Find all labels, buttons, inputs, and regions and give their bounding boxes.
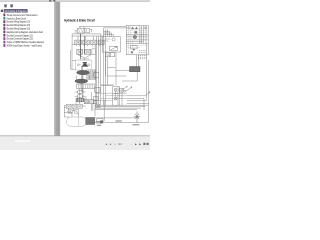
wire cluster left leads: [64, 106, 85, 113]
small comp on mid column: [94, 72, 99, 77]
valve block hatched: [77, 84, 95, 88]
brake right links: [120, 86, 128, 91]
wire bank drop L: [116, 71, 137, 82]
pump circles: [77, 64, 79, 66]
wire pump top line: [80, 58, 90, 60]
tank strainer dark: [86, 118, 95, 125]
solenoid valve SV1: [75, 40, 81, 45]
right bus staircase wires: [104, 28, 127, 106]
sidebar tab icon 1: [4, 4, 6, 7]
check valve CV2: [85, 49, 91, 54]
zoom in button: [147, 143, 149, 145]
bottom border wire: [88, 118, 149, 123]
priority valve V1: [77, 29, 84, 34]
right small mark row 2: [138, 56, 148, 59]
post-fc valve cluster: [105, 53, 110, 57]
wire pump links: [77, 76, 90, 80]
steering small circle: [131, 51, 133, 53]
right nested return wires: [127, 96, 149, 110]
mid band wires: [96, 93, 127, 101]
wire left riser: [71, 44, 76, 69]
steering tank symbol: [131, 46, 138, 49]
pre-tank valve row: [68, 110, 72, 113]
brake gauge 2: [114, 97, 117, 100]
drain X valve: [134, 112, 140, 123]
solenoid valve SV2: [83, 40, 89, 45]
wire mid drops: [76, 92, 93, 117]
long verticals mid column: [95, 34, 103, 106]
tank T1: [66, 117, 86, 126]
wire fc risers: [106, 57, 127, 85]
bookmark item 6: [3, 31, 5, 34]
status bar: [0, 136, 150, 150]
tank baffle: [78, 117, 80, 126]
wire center drop: [81, 66, 83, 92]
small box cluster right of mid: [96, 104, 100, 107]
page number box: [113, 142, 117, 145]
svg-text:04 Drawing & Diagrams: 04 Drawing & Diagrams: [5, 10, 28, 13]
top toolbar edge strip: [0, 0, 150, 2]
bookmark root row highlight: [4, 9, 28, 12]
pump rotor dark: [81, 64, 88, 67]
tank side box: [97, 119, 104, 122]
bookmark item 3: [3, 20, 5, 23]
relief valve chain 3: [78, 99, 82, 102]
wire manifold drops: [78, 36, 101, 40]
compact valve cluster dark: [77, 98, 85, 102]
svg-text:MODM (Input/Output Monitor - I: MODM (Input/Output Monitor - Input/Outpu…: [7, 45, 42, 48]
toolbar icon remnants: [49, 0, 51, 2]
bookmark item 1: [3, 14, 5, 17]
pump unit frame: [75, 60, 91, 70]
wire manifold lines: [72, 34, 103, 44]
label below tank: [96, 123, 102, 125]
corner arrow top-right: [147, 92, 150, 95]
bottom bus wires: [95, 105, 149, 109]
bookmark item 10: [3, 44, 5, 47]
valve bank dark: [130, 67, 141, 72]
valve V1 side stubs: [75, 29, 92, 32]
wire top feed: [79, 26, 126, 28]
status pill left: [14, 139, 32, 142]
wire tank feeds: [72, 100, 104, 121]
motor ellipse M1: [77, 71, 90, 75]
motor ellipse M2: [75, 79, 88, 83]
sidebar tab icon 2: [10, 4, 12, 7]
zoom out button: [143, 143, 145, 145]
steering inner verticals: [140, 26, 146, 44]
steering dark box: [134, 31, 137, 33]
svg-text:◄: ◄: [109, 143, 112, 146]
svg-text:◄: ◄: [105, 143, 108, 146]
right small mark row 1: [139, 51, 147, 53]
steering cross lines: [126, 34, 148, 43]
flow control block FC1: [102, 37, 120, 52]
lower-left cluster row: [66, 104, 71, 108]
steering unit frame: [126, 26, 148, 55]
wire bottom-left link: [64, 113, 72, 118]
label hyd tank: [132, 124, 139, 125]
flow control inner valve: [110, 46, 118, 50]
window background: [0, 0, 150, 150]
solenoid valve SV4: [98, 40, 104, 45]
label suction: [96, 121, 101, 122]
brake valve label: [101, 85, 114, 86]
solenoid coil marks: [77, 45, 103, 47]
check valve CV1: [77, 49, 83, 54]
wire fc drop: [115, 52, 117, 85]
bookmark item 8: [3, 37, 5, 40]
bookmark item 2: [3, 17, 5, 20]
brake inner lines: [114, 87, 119, 105]
bookmark item 4: [3, 24, 5, 27]
steering gauge circles: [128, 27, 130, 29]
brake valve BV1: [113, 87, 120, 105]
label note1: [115, 120, 121, 121]
wire V converge: [77, 54, 92, 60]
wire right edge verticals: [146, 44, 148, 123]
wire bank feeds: [137, 55, 139, 67]
solenoid valve SV3: [91, 40, 97, 45]
brake gauge 1: [114, 88, 117, 91]
bookmark root expand glyph: [1, 10, 3, 12]
steering mesh lines: [126, 26, 148, 55]
wire brake drop: [121, 91, 123, 106]
steering pump circle: [133, 35, 136, 38]
main pressure wire dark: [80, 34, 82, 59]
relief valve chain 2: [78, 95, 82, 98]
relief stub block: [92, 49, 95, 54]
pilot valve V2: [84, 29, 90, 33]
mid-bottom small boxes: [84, 100, 88, 104]
bookmark item 5: [3, 27, 5, 30]
fc inner marks: [105, 38, 116, 41]
steering top tree symbols: [131, 27, 138, 30]
diag arrow lower right: [124, 87, 132, 93]
svg-text:/24: /24: [118, 143, 122, 146]
wire chain stubs: [75, 92, 86, 100]
bookmark item 9: [3, 41, 5, 44]
wire stack line: [80, 88, 83, 104]
relief valve chain 1: [78, 91, 82, 94]
gear assembly mesh: [87, 70, 96, 80]
lower cluster hang marks: [67, 108, 75, 111]
svg-text:Hydraulic & Brake Circuit: Hydraulic & Brake Circuit: [64, 18, 95, 22]
bookmark item 7: [3, 34, 5, 37]
